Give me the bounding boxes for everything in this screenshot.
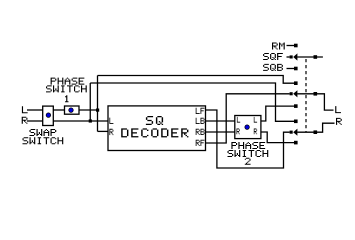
text ps2 pin L in xyxy=(237,117,240,123)
text ps2 pin R in xyxy=(237,129,240,135)
swap switch indicator dot xyxy=(46,113,51,118)
text label SWAP xyxy=(30,129,57,136)
wire step into decoder R xyxy=(98,130,109,132)
text label SWITCH (phase 1) xyxy=(46,85,87,92)
wire upper feedback to contact xyxy=(98,76,295,84)
text label RM xyxy=(272,43,285,50)
text R input label xyxy=(22,117,28,124)
wire RF up to selector xyxy=(206,94,290,143)
text label DECODER xyxy=(121,128,188,137)
contact SQB xyxy=(294,67,298,71)
wire selector pole 3 arm to R output xyxy=(297,123,334,132)
text label SQB xyxy=(263,64,283,71)
wire RB to phase switch 2 R xyxy=(206,131,235,133)
text ps2 pin L out xyxy=(254,117,257,123)
pivot pole 3 xyxy=(314,130,318,134)
text label PHASE (switch 1) xyxy=(51,78,85,85)
text decoder pin R xyxy=(109,129,113,135)
phase switch 2 indicator dot xyxy=(245,125,250,130)
contact pole 2 selected xyxy=(290,92,293,95)
wire L input xyxy=(27,109,43,111)
text label PHASE (switch 2) xyxy=(231,142,265,149)
contact lower feedback xyxy=(294,120,298,124)
wire swap to phase switch 1 xyxy=(53,109,64,111)
wire vertical R tap xyxy=(89,83,91,121)
text R output label xyxy=(336,118,342,125)
wire R input xyxy=(27,120,43,122)
arrow pole 2 xyxy=(293,90,297,97)
contact phase switch 2 R out xyxy=(294,141,298,145)
text decoder pin LB xyxy=(196,118,205,124)
contact pole 3 selected xyxy=(290,131,293,134)
wire phase switch 2 L output xyxy=(261,106,294,121)
wire LF loop under phase switch 2 xyxy=(206,110,290,168)
contact RM xyxy=(294,44,298,48)
pivot pole 2 xyxy=(314,92,318,96)
wire selector pole 2 arm to L output xyxy=(297,94,333,110)
text ps2 pin R out xyxy=(254,129,257,135)
wire RM xyxy=(287,45,295,47)
arrow pole 1 xyxy=(293,53,297,60)
wire selector pole 1 arm xyxy=(297,56,323,58)
text decoder pin RB xyxy=(196,129,205,135)
text decoder pin L xyxy=(109,118,113,124)
phase switch 1 box xyxy=(65,106,80,114)
contact upper feedback xyxy=(294,81,298,85)
text label SWITCH (phase 2) xyxy=(228,150,269,157)
wire LB to phase switch 2 L xyxy=(206,120,235,122)
swap switch box xyxy=(43,106,54,125)
junction L tap xyxy=(96,109,99,112)
dashed gang line xyxy=(305,59,307,132)
wire SQF xyxy=(287,56,290,58)
text decoder pin LF xyxy=(196,108,205,114)
arrow pole 3 xyxy=(293,129,297,136)
wire lower feedback to contact xyxy=(90,83,294,121)
wire R path to decoder L xyxy=(53,120,108,122)
text label SWITCH (swap) xyxy=(23,137,64,144)
junction R tap xyxy=(89,119,92,122)
phase switch 2 box xyxy=(235,116,261,139)
phase switch 1 indicator dot xyxy=(68,108,73,113)
text L output label xyxy=(335,106,341,113)
wire vertical L tap xyxy=(97,76,99,132)
text decoder pin RF xyxy=(196,140,205,146)
text label 2 xyxy=(245,158,251,165)
text label SQF xyxy=(263,53,283,60)
text label SQ xyxy=(146,116,163,125)
contact phase switch 2 L out xyxy=(294,104,298,108)
pivot pole 1 xyxy=(314,55,318,59)
contact pole 1 selected xyxy=(290,55,293,58)
wire SQB xyxy=(287,68,295,70)
text label 1 xyxy=(65,95,68,102)
text L input label xyxy=(22,106,28,113)
wire phase switch 2 R output xyxy=(261,132,294,143)
SQ decoder box xyxy=(108,106,206,151)
wire phase switch 1 output xyxy=(79,109,98,111)
